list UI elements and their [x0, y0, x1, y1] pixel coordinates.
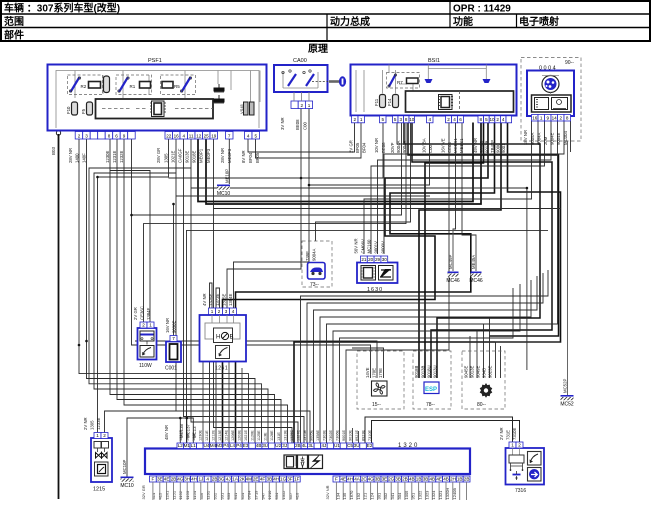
PSF1 pins 4 5	[245, 132, 260, 140]
svg-text:BE08: BE08	[381, 142, 386, 153]
svg-text:1213E: 1213E	[218, 430, 222, 441]
svg-text:F11: F11	[374, 98, 379, 106]
wire mid horizontal y208	[214, 208, 561, 210]
svg-text:2B: 2B	[212, 476, 218, 481]
svg-text:4: 4	[232, 309, 235, 314]
svg-text:28V GR: 28V GR	[156, 148, 161, 163]
svg-text:30: 30	[382, 257, 388, 262]
svg-text:9004A: 9004A	[402, 140, 407, 153]
BSI1 relay R7 dashed	[387, 73, 420, 89]
73- labels	[305, 248, 317, 261]
wire 1630 pin2 to 0004	[371, 121, 545, 254]
svg-text:3V NR: 3V NR	[280, 117, 285, 130]
svg-text:1A: 1A	[232, 476, 239, 481]
7316 pins	[509, 442, 523, 448]
sensor 110W	[138, 328, 157, 369]
svg-text:12: 12	[196, 133, 202, 138]
svg-text:F: F	[335, 476, 338, 481]
svg-text:32V NR: 32V NR	[325, 485, 330, 499]
wire PSF1 pin4 long L to ECU	[184, 139, 305, 443]
svg-text:2: 2	[354, 117, 357, 122]
PSF1 main fuse strip	[96, 99, 214, 119]
svg-text:MC52P: MC52P	[563, 379, 568, 393]
svg-text:MC52: MC52	[560, 402, 574, 408]
svg-text:10: 10	[489, 117, 495, 122]
svg-text:8923E: 8923E	[362, 430, 366, 441]
svg-text:5: 5	[255, 133, 258, 138]
svg-text:160F: 160F	[192, 432, 196, 441]
wire BSI1 MEBS1 to MC46 right	[462, 123, 476, 272]
svg-text:9013B: 9013B	[421, 365, 426, 378]
BSI1 pin labels	[349, 140, 367, 153]
svg-text:9004A: 9004A	[312, 248, 317, 261]
PSF1 pin 7	[226, 132, 234, 140]
PSF1 relay R1 dashed box	[116, 75, 152, 95]
svg-text:7316: 7316	[515, 488, 526, 494]
wire thick BSI 20VP east loop to 80-	[408, 123, 559, 337]
wire right ring r4 to ECU	[320, 280, 531, 443]
svg-text:2: 2	[301, 103, 304, 108]
BSI1 fuse F14	[387, 95, 399, 108]
svg-text:179E: 179E	[378, 368, 383, 378]
wire CA00 pin2 BE08 down	[227, 107, 301, 308]
svg-text:1: 1	[211, 309, 214, 314]
ground MC46 right	[475, 235, 477, 271]
wire MC52 ground run	[567, 141, 569, 396]
svg-text:ESP: ESP	[425, 387, 437, 393]
svg-text:80--: 80--	[477, 402, 486, 408]
wire sensor 110W pin1 riser up	[110, 171, 150, 323]
svg-text:BF05: BF05	[355, 142, 360, 153]
svg-text:10V NR: 10V NR	[374, 138, 379, 153]
svg-text:1: 1	[308, 103, 311, 108]
svg-text:1358E: 1358E	[316, 430, 320, 441]
svg-text:731E: 731E	[506, 430, 511, 440]
wire BSI1 pin4 C00 branch	[309, 123, 430, 186]
svg-text:9018B: 9018B	[479, 140, 484, 153]
svg-text:1: 1	[511, 442, 514, 447]
wire left fan E to ECU	[110, 139, 275, 443]
wire PSF1 pin4 BF04 to BSI1 pin2	[248, 123, 355, 153]
wire CA00 pin1 C00 down	[234, 107, 310, 308]
C001 pin labels	[165, 318, 177, 333]
svg-text:9004E: 9004E	[550, 132, 555, 145]
0004 pin labels	[523, 130, 568, 145]
svg-text:9: 9	[547, 115, 550, 120]
svg-text:4E: 4E	[164, 476, 170, 481]
svg-text:9045E: 9045E	[464, 365, 469, 378]
svg-text:9018U: 9018U	[427, 365, 432, 378]
svg-text:49V NR: 49V NR	[473, 138, 478, 153]
svg-text:9013E: 9013E	[185, 150, 190, 163]
wire thick BSI 49V west loop 1630 outer to ECU	[236, 123, 495, 444]
svg-text:2E: 2E	[253, 476, 259, 481]
svg-text:R7: R7	[397, 80, 403, 85]
svg-text:MC49P: MC49P	[448, 255, 453, 269]
svg-text:9018B: 9018B	[414, 365, 419, 378]
ECU top pin row	[177, 443, 373, 449]
wire ECU top pin stubs	[203, 343, 359, 443]
svg-text:934D: 934D	[482, 368, 487, 378]
svg-text:原理: 原理	[308, 43, 328, 55]
wire PSF1 pin16 long L to ECU	[176, 139, 310, 443]
wire thick BSI 20VP east loop to 78- feed3	[412, 123, 552, 379]
svg-text:3U: 3U	[354, 443, 360, 448]
wire BSI1 9004A to 73- box	[316, 123, 411, 242]
svg-text:电子喷射: 电子喷射	[519, 15, 559, 28]
PSF1 fuse F10	[66, 102, 78, 115]
svg-text:6: 6	[115, 133, 118, 138]
svg-text:MC10: MC10	[120, 483, 134, 489]
CA00 pin labels	[280, 117, 308, 130]
svg-text:4: 4	[206, 476, 209, 481]
BSI1 fuse F11	[374, 95, 386, 108]
svg-text:MC160: MC160	[367, 239, 372, 253]
svg-text:1233E: 1233E	[96, 417, 101, 430]
svg-text:7310E: 7310E	[512, 427, 517, 440]
wire BSI1 pin5 BE08 branch	[169, 123, 384, 179]
svg-text:4E: 4E	[436, 476, 442, 481]
svg-text:1600: 1600	[185, 433, 189, 441]
svg-text:9001: 9001	[501, 143, 506, 153]
BSI1 inner ECU box	[406, 91, 514, 112]
svg-text:B: B	[230, 335, 234, 341]
svg-text:3L: 3L	[308, 443, 314, 448]
svg-text:1231E: 1231E	[112, 150, 117, 163]
svg-text:7306E: 7306E	[336, 430, 340, 441]
engine ECU 1320	[145, 443, 470, 474]
wire left fan A to ECU	[79, 139, 249, 443]
svg-text:9001E: 9001E	[342, 430, 346, 441]
svg-text:11: 11	[189, 133, 194, 138]
ECU bottom labels left	[151, 490, 300, 500]
ground wire ME10P from PSF1 pin7	[228, 139, 230, 184]
svg-text:9013B: 9013B	[485, 140, 490, 153]
svg-text:7: 7	[228, 133, 231, 138]
svg-text:BE08: BE08	[295, 119, 300, 130]
svg-text:9004A: 9004A	[537, 132, 542, 145]
svg-text:U1: U1	[334, 443, 340, 448]
svg-text:8V NR: 8V NR	[241, 150, 246, 163]
dashed box 78- ESP	[413, 351, 451, 409]
svg-text:F: F	[151, 476, 154, 481]
svg-text:9018E: 9018E	[192, 150, 197, 163]
svg-text:范围: 范围	[4, 15, 24, 28]
svg-text:32V GR: 32V GR	[141, 485, 146, 499]
svg-text:部件: 部件	[4, 29, 24, 42]
svg-text:56V NR: 56V NR	[354, 238, 359, 253]
ground MC52	[563, 379, 568, 393]
svg-text:E2: E2	[367, 443, 373, 448]
svg-text:1: 1	[540, 115, 543, 120]
svg-text:19: 19	[211, 133, 217, 138]
svg-text:3H: 3H	[184, 476, 190, 481]
BSI1 capacitor symbol 1	[425, 79, 433, 83]
ECU injector and spark symbols	[284, 455, 323, 469]
svg-text:4G: 4G	[177, 476, 184, 481]
svg-text:1G: 1G	[280, 476, 287, 481]
wire C001 riser	[173, 204, 175, 336]
wire 1215 pin2 feed	[105, 411, 187, 443]
svg-text:1400: 1400	[75, 153, 80, 163]
svg-text:C001: C001	[165, 366, 177, 372]
wire right ring r6 to ECU	[333, 284, 520, 443]
svg-text:1325E: 1325E	[290, 430, 294, 441]
ECU bottom wires going down	[153, 482, 467, 500]
svg-text:ME10P: ME10P	[225, 169, 230, 183]
wire BSI1 pin to PSF1 pin loop y215	[132, 123, 402, 216]
svg-text:15--: 15--	[372, 402, 381, 408]
svg-text:9000V: 9000V	[381, 241, 386, 254]
svg-text:1214E: 1214E	[225, 430, 229, 441]
wire right ring r5 from 0004 to ECU	[327, 121, 558, 443]
svg-text:1232E: 1232E	[119, 150, 124, 163]
svg-text:739E: 739E	[305, 251, 310, 261]
wire right ring r3 to ECU	[314, 276, 538, 443]
svg-text:28V NR: 28V NR	[68, 148, 73, 163]
svg-text:4J: 4J	[321, 443, 326, 448]
PSF1 capacitor symbols right	[214, 84, 224, 103]
110W pins	[140, 322, 154, 328]
svg-text:M3: M3	[216, 443, 223, 448]
svg-text:动力总成: 动力总成	[330, 15, 370, 28]
svg-text:C00: C00	[428, 145, 433, 153]
fuse box PSF1	[48, 58, 267, 131]
dashed box 80- gearbox	[462, 351, 505, 409]
svg-text:131E: 131E	[277, 432, 281, 441]
svg-text:18V NR: 18V NR	[523, 130, 528, 145]
svg-text:25: 25	[204, 133, 210, 138]
svg-text:140F: 140F	[82, 153, 87, 163]
svg-text:7303E: 7303E	[323, 430, 327, 441]
svg-text:1212E: 1212E	[212, 430, 216, 441]
wire mid horizontal y188 with branch down	[191, 188, 527, 370]
svg-text:1208E: 1208E	[231, 430, 235, 441]
svg-text:BF04: BF04	[362, 142, 367, 153]
BSI1 capacitor symbol 2	[483, 79, 491, 83]
ground MC46 left	[452, 229, 454, 271]
svg-text:L4: L4	[230, 443, 236, 448]
wire 0004 pin8 stub	[570, 121, 572, 152]
svg-text:L2: L2	[178, 443, 184, 448]
key symbol	[329, 76, 346, 86]
svg-text:1J: 1J	[198, 476, 203, 481]
svg-text:1384E: 1384E	[146, 307, 151, 320]
svg-text:MCBS1: MCBS1	[453, 138, 458, 153]
PSF1 pin row mid	[165, 132, 218, 140]
svg-text:1305: 1305	[164, 153, 169, 163]
svg-text:CE36C: CE36C	[140, 306, 145, 320]
wire thick BSI pin east loop to ECU	[294, 123, 561, 444]
svg-text:4V NR: 4V NR	[202, 293, 207, 306]
svg-text:4B: 4B	[443, 476, 449, 481]
svg-text:P4: P4	[236, 443, 242, 448]
svg-text:1375E: 1375E	[303, 430, 307, 441]
wire BSI1 MCBS1 to MC46	[453, 123, 456, 272]
wire thick BSI 49V west loop 1630 to ECU	[223, 123, 489, 444]
PSF1 connector VS45	[239, 102, 254, 115]
wire 15- box feeds	[135, 341, 377, 378]
svg-text:CA00: CA00	[293, 58, 307, 64]
svg-text:8921E: 8921E	[355, 430, 359, 441]
svg-text:2V GR: 2V GR	[349, 140, 354, 153]
diagnostic connector 0004	[527, 66, 574, 117]
svg-text:MC004: MC004	[563, 131, 568, 145]
svg-text:6: 6	[459, 117, 462, 122]
throttle housing 1261	[200, 315, 247, 372]
svg-text:4H: 4H	[191, 476, 197, 481]
CA00 wires to pins	[294, 92, 309, 101]
110W pin labels	[133, 306, 151, 320]
svg-text:4: 4	[453, 117, 456, 122]
svg-text:9049E: 9049E	[476, 365, 481, 378]
svg-text:4A: 4A	[354, 476, 361, 481]
1215 pins	[94, 433, 108, 439]
svg-text:1231E: 1231E	[179, 430, 183, 441]
wire PSF1 pin12 long L to ECU	[214, 139, 293, 443]
svg-text:2V GR: 2V GR	[133, 307, 138, 320]
wire right ring r1 to ECU	[301, 270, 549, 443]
svg-text:VS45: VS45	[239, 103, 244, 114]
1215 pin labels	[83, 417, 101, 430]
accelerator pedal 7316	[506, 448, 545, 494]
PSF1 pin labels	[68, 148, 87, 163]
svg-text:1215: 1215	[93, 487, 105, 493]
header table	[1, 1, 650, 41]
svg-text:1128E: 1128E	[270, 430, 274, 441]
svg-text:1230E: 1230E	[198, 430, 202, 441]
svg-text:8: 8	[108, 133, 111, 138]
wire PSF1 group2 pin 22 to 1215	[98, 139, 169, 433]
svg-text:CM06V: CM06V	[361, 239, 366, 253]
svg-text:1B: 1B	[416, 476, 422, 481]
svg-text:2: 2	[518, 442, 521, 447]
svg-text:4B: 4B	[256, 443, 262, 448]
svg-text:1: 1	[96, 433, 99, 438]
svg-text:5: 5	[485, 117, 488, 122]
svg-text:BSI1: BSI1	[428, 58, 440, 64]
svg-text:3: 3	[225, 309, 228, 314]
dashed box 15- fan	[357, 351, 404, 409]
svg-text:OPR : 11429: OPR : 11429	[453, 4, 511, 15]
svg-text:功能: 功能	[453, 15, 473, 28]
svg-text:73--: 73--	[310, 282, 319, 288]
BSI1 inner wires	[356, 65, 486, 113]
PSF1 fuse F1	[104, 76, 110, 93]
dashed box 73- with vehicle icon	[302, 241, 332, 288]
svg-text:P4: P4	[223, 443, 229, 448]
svg-text:MC10: MC10	[217, 191, 231, 197]
svg-text:CA0GF: CA0GF	[178, 148, 183, 163]
ground MC10 top	[217, 185, 231, 198]
wire ECU pin to 7316 pin2	[372, 421, 520, 444]
1261 pins	[209, 308, 237, 315]
svg-text:2B: 2B	[464, 476, 470, 481]
svg-text:2B: 2B	[171, 476, 177, 481]
svg-text:9005A: 9005A	[530, 132, 535, 145]
svg-text:48V NR: 48V NR	[164, 425, 169, 440]
svg-text:1261: 1261	[215, 366, 228, 372]
wire 1261 pin1 riser	[210, 283, 213, 443]
svg-text:29: 29	[375, 257, 381, 262]
svg-text:PSF1: PSF1	[148, 58, 162, 64]
svg-text:16V VE: 16V VE	[441, 138, 446, 153]
ECU top pin labels	[179, 430, 372, 441]
svg-text:7302E: 7302E	[329, 430, 333, 441]
1630 pin labels	[354, 238, 386, 253]
wire BSI1 20VP to 0004	[397, 121, 538, 144]
svg-text:9005E: 9005E	[309, 430, 313, 441]
svg-text:3E: 3E	[157, 476, 163, 481]
svg-text:MC46: MC46	[469, 278, 483, 284]
svg-text:2B: 2B	[295, 443, 301, 448]
svg-text:2: 2	[496, 117, 499, 122]
wire 1630 pin3 to 0004	[378, 121, 552, 254]
wire thick BSI 49V west to 78- feed1	[419, 123, 501, 379]
ignition switch CA00	[274, 58, 330, 92]
ECU bottom pin row left	[150, 476, 301, 482]
canister valve 1215	[91, 438, 112, 493]
svg-text:4: 4	[502, 117, 505, 122]
svg-text:L1: L1	[191, 443, 197, 448]
svg-text:2C: 2C	[361, 476, 368, 481]
svg-text:3: 3	[85, 133, 88, 138]
svg-text:TB42P: TB42P	[490, 140, 495, 153]
7316 pin labels	[499, 427, 517, 440]
wire PSF1 pin11 long L to ECU	[191, 139, 298, 443]
svg-text:28V NR: 28V NR	[220, 148, 225, 163]
wire BSI1 CE04 down to ECU	[346, 123, 449, 444]
PSF1 fuse F5	[81, 102, 93, 115]
svg-text:4: 4	[183, 133, 186, 138]
svg-text:8: 8	[405, 117, 408, 122]
svg-text:22: 22	[166, 133, 172, 138]
svg-text:E3: E3	[243, 443, 249, 448]
svg-text:2: 2	[78, 133, 81, 138]
svg-text:3B: 3B	[423, 476, 429, 481]
svg-text:4H: 4H	[347, 476, 353, 481]
svg-text:1: 1	[149, 322, 152, 327]
svg-text:14: 14	[552, 115, 558, 120]
svg-text:113E: 113E	[264, 432, 268, 441]
svg-text:3B: 3B	[375, 476, 381, 481]
svg-text:9013U: 9013U	[433, 365, 438, 378]
svg-text:H: H	[216, 335, 220, 341]
wire center long vertical to ECU	[187, 230, 549, 443]
junction dots	[300, 177, 303, 180]
svg-text:170E: 170E	[372, 368, 377, 378]
svg-text:7: 7	[172, 336, 175, 341]
wire sensor 110W pin2 riser to BSI	[144, 123, 407, 324]
svg-text:1B: 1B	[457, 476, 463, 481]
svg-text:9013E: 9013E	[470, 365, 475, 378]
1630 pins	[361, 256, 388, 263]
svg-text:1203E: 1203E	[238, 430, 242, 441]
svg-text:3E: 3E	[382, 476, 388, 481]
svg-text:R1: R1	[130, 84, 136, 89]
svg-text:4J: 4J	[226, 476, 231, 481]
ECU bottom labels right	[335, 488, 457, 500]
wire left fan F to ECU	[117, 139, 281, 443]
0004 pins	[532, 115, 571, 122]
svg-text:ME0P1: ME0P1	[199, 148, 204, 163]
svg-text:9010E: 9010E	[349, 430, 353, 441]
wire left fan D to ECU	[94, 173, 268, 443]
svg-text:5: 5	[394, 117, 397, 122]
svg-text:F10: F10	[66, 106, 71, 114]
PSF1 relay R5 dashed box	[161, 75, 196, 95]
svg-text:4B: 4B	[409, 476, 415, 481]
